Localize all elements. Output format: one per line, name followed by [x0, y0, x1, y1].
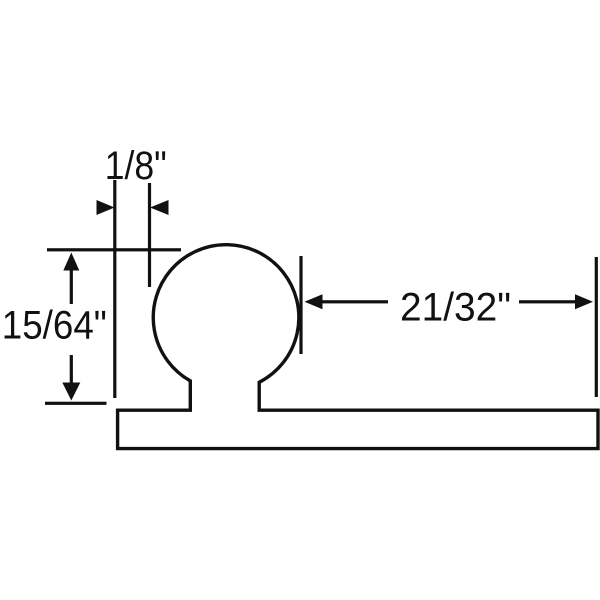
dimension line left segment 21/32	[319, 300, 388, 303]
svg-text:15/64": 15/64"	[2, 304, 107, 348]
extension line top of 15/64 dimension	[47, 248, 181, 251]
arrow up of 15/64 dimension	[63, 253, 79, 271]
arrow down of 15/64 dimension	[62, 383, 80, 401]
arrow pointing right at left 1/8 line	[97, 200, 115, 215]
extension line bottom of 15/64 dimension	[45, 402, 107, 405]
svg-text:1/8": 1/8"	[105, 144, 167, 188]
extension line left of 1/8 dimension	[113, 180, 116, 398]
dimension line right segment 21/32	[519, 300, 575, 303]
extension line right of 1/8 dimension	[148, 183, 151, 287]
dimension line lower segment 15/64	[70, 355, 73, 384]
dimension line upper segment 15/64	[70, 268, 73, 304]
arrow pointing right at right 21/32 line	[575, 294, 593, 309]
extension line right of 21/32 dimension	[595, 257, 598, 397]
profile outline (bulb-and-rail extrusion)	[118, 245, 598, 449]
arrow pointing left at left 21/32 line	[305, 294, 323, 309]
svg-text:21/32": 21/32"	[400, 286, 511, 330]
arrow pointing left at right 1/8 line	[150, 200, 169, 215]
extension line left of 21/32 dimension	[299, 256, 302, 354]
